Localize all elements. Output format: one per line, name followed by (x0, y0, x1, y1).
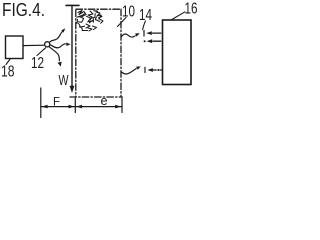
e left arrowhead (76, 105, 82, 109)
field arrow 14 lower: head and shaft (147, 39, 153, 43)
collector box 16 (163, 20, 192, 85)
web W: down arrowhead (70, 86, 75, 93)
leader to label 18 (6, 59, 11, 65)
leader to label 10 (118, 18, 127, 27)
field arrow lower-right: tick (144, 67, 146, 72)
spray arrow middle (wavy) (50, 44, 65, 48)
svg-text:16: 16 (185, 1, 198, 18)
svg-text:W: W (59, 72, 70, 89)
spray arrow lower (wavy) (49, 47, 59, 61)
web W: top cap (66, 4, 79, 6)
box 18 (voltage supply) (6, 36, 24, 59)
corona scribble inside chamber (77, 11, 103, 32)
leader to label 14 (143, 21, 146, 30)
svg-text:12: 12 (31, 55, 44, 72)
chamber 10: top edge (dash-dot) (76, 8, 121, 10)
chamber 10: left edge (dash-dot) (75, 10, 77, 97)
svg-text:18: 18 (1, 64, 15, 81)
svg-text:FIG.4.: FIG.4. (2, 0, 45, 20)
e right arrowhead (115, 105, 121, 109)
svg-text:10: 10 (122, 4, 135, 21)
field arrow 14 upper: head and shaft (146, 31, 152, 35)
dimension middle tick at web (74, 98, 76, 112)
squiggle arrow lower right (from chamber) (122, 69, 137, 74)
F right arrowhead (69, 105, 75, 109)
F left arrowhead (42, 105, 48, 109)
squiggle arrow upper right (from chamber) (122, 34, 136, 37)
spray arrow upper (wavy) (50, 31, 63, 42)
web W: vertical line (71, 5, 73, 86)
corona point 12 (circle) (45, 42, 50, 47)
svg-text:14: 14 (139, 7, 152, 24)
field arrow 14 lower: dot tail (144, 40, 146, 42)
leader to label 12 (37, 48, 46, 56)
dimension line (41, 106, 122, 108)
svg-text:F: F (53, 95, 60, 109)
dimension F: left extension line (40, 88, 42, 118)
chamber 10: bottom edge (dash-dot) (70, 96, 122, 98)
chamber 10: right edge (dash-dot) (120, 9, 122, 97)
leader to label 16 (171, 12, 185, 20)
field arrow lower-right: head, dash, dot (147, 68, 153, 72)
wire from box 18 to corona point 12 (23, 44, 45, 46)
dimension right tick (121, 98, 123, 112)
svg-text:e: e (101, 93, 108, 108)
field arrow 14 upper: tick (143, 30, 145, 36)
